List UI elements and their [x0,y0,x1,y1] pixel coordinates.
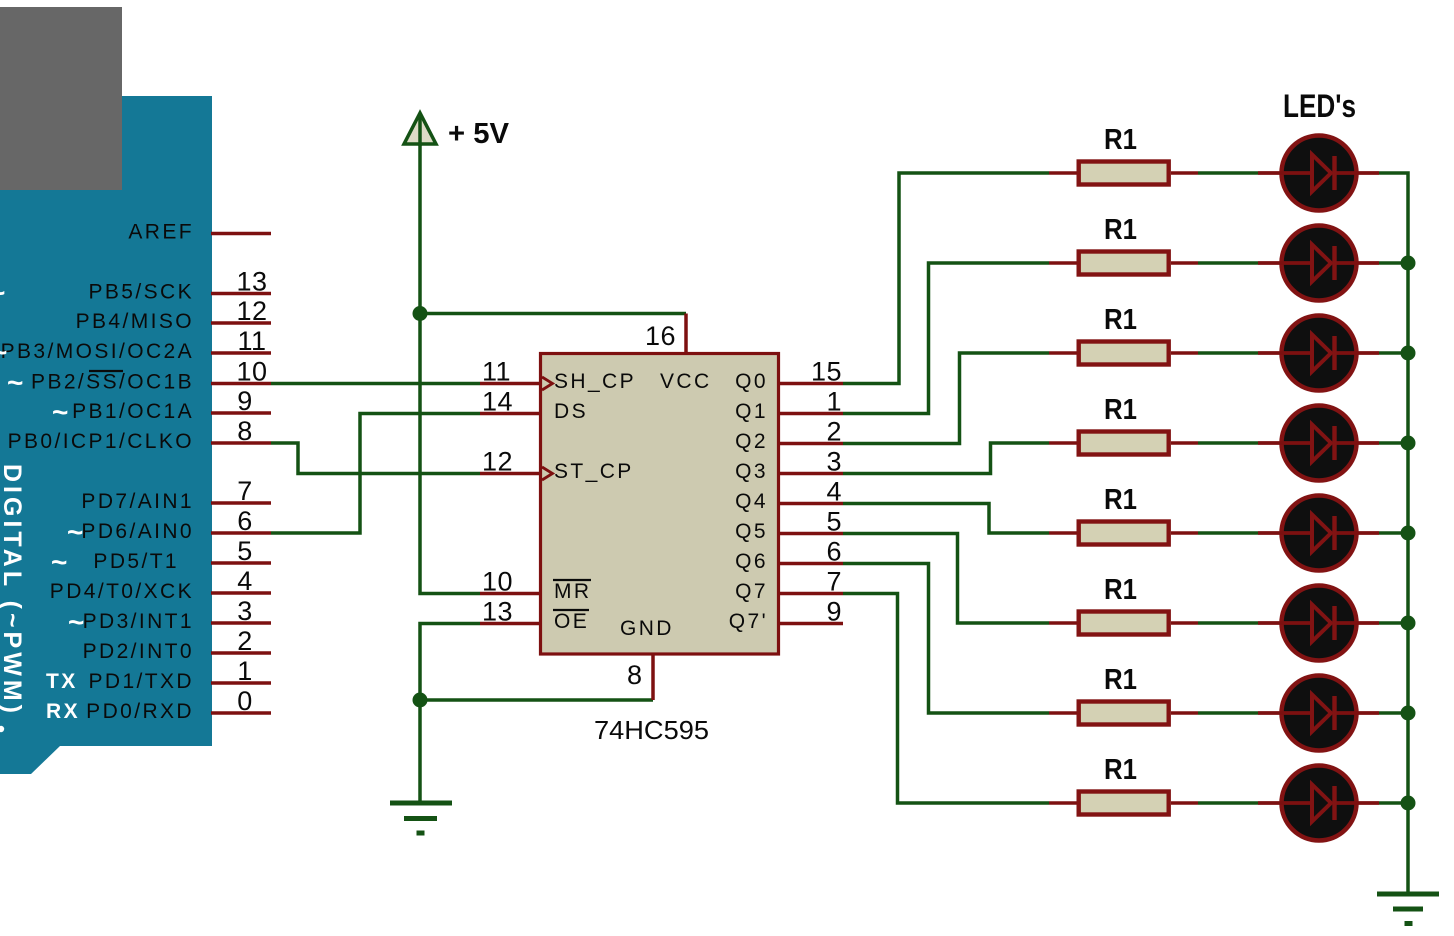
svg-text:PB3/MOSI/OC2A: PB3/MOSI/OC2A [1,340,194,363]
wire Q1 to resistor row 2 [843,263,1049,414]
wire Q4 to resistor row 5 [843,504,1049,534]
wire LED4 to bus [1379,441,1408,445]
Arduino pin 0 PD0/RXD [46,686,271,723]
svg-text:Q5: Q5 [735,520,768,543]
wire LED2 to bus [1379,261,1408,265]
resistor R1 row 7 [1049,664,1198,725]
junction bus row 3 [1401,346,1416,361]
svg-text:3: 3 [826,447,842,477]
svg-text:4: 4 [237,566,253,596]
svg-text:9: 9 [826,597,842,627]
svg-text:15: 15 [811,357,842,387]
svg-text:7: 7 [826,567,842,597]
resistor R1 row 4 [1049,394,1198,455]
svg-text:ST_CP: ST_CP [554,460,634,483]
svg-text:6: 6 [237,506,253,536]
chip pin 6 Q6 [735,537,843,574]
svg-text:7: 7 [237,476,253,506]
svg-text:~: ~ [51,547,67,578]
Arduino pin 4 PD4/T0/XCK [50,566,271,603]
svg-text:2: 2 [237,626,253,656]
junction GND [413,693,428,708]
LED D6 [1258,586,1379,661]
svg-text:74HC595: 74HC595 [594,715,709,745]
svg-text:GND: GND [620,617,674,640]
LED D8 [1258,766,1379,841]
wire Q7 to resistor row 8 [843,594,1049,804]
chip pin 2 Q2 [735,417,843,454]
svg-text:8: 8 [237,416,253,446]
Arduino gray module block [0,7,122,190]
wire Q6 to resistor row 7 [843,564,1049,714]
junction bus row 7 [1401,706,1416,721]
svg-text:VCC: VCC [660,370,712,393]
svg-text:1: 1 [237,656,253,686]
+5V power symbol [404,113,510,150]
Arduino pin 12 PB4/MISO [76,296,271,333]
svg-text:11: 11 [237,326,266,356]
svg-text:AREF: AREF [128,221,194,244]
svg-text:12: 12 [482,447,513,477]
junction +5V/VCC [413,306,428,321]
svg-text:10: 10 [236,357,267,387]
LED D5 [1258,496,1379,571]
svg-text:Q7': Q7' [729,610,768,633]
resistor R1 row 1 [1049,124,1198,185]
chip pin 9 Q7' [729,597,843,634]
Arduino digital connector body [0,96,212,774]
svg-text:~: ~ [0,337,7,368]
Arduino pin 10 PB2/SS/OC1B [7,357,271,399]
chip pin 14 DS [480,387,588,424]
svg-text:Q7: Q7 [735,580,768,603]
junction bus row 5 [1401,526,1416,541]
svg-text:9: 9 [237,386,253,416]
wire OE to ground [420,624,480,804]
LED D1 [1258,136,1379,211]
wire Q5 to resistor row 6 [843,534,1049,624]
svg-text:TX: TX [46,670,78,693]
svg-text:8: 8 [627,660,643,690]
wire PB0 to ST_CP [271,443,480,474]
svg-text:13: 13 [236,267,267,297]
svg-text:PD2/INT0: PD2/INT0 [83,640,194,663]
svg-text:13: 13 [482,597,513,627]
svg-text:0: 0 [237,686,253,716]
svg-text:Q0: Q0 [735,370,768,393]
chip pin 10 MR [480,567,591,604]
svg-text:3: 3 [237,596,253,626]
svg-text:~: ~ [0,277,5,308]
junction bus row 2 [1401,256,1416,271]
svg-text:PD3/INT1: PD3/INT1 [83,610,194,633]
wire PD6 to DS [271,414,480,534]
chip pin 5 Q5 [735,507,843,544]
svg-text:PD1/TXD: PD1/TXD [89,670,195,693]
resistor R1 row 3 [1049,304,1198,365]
svg-text:4: 4 [826,477,842,507]
LED D4 [1258,406,1379,481]
wire LED3 to bus [1379,351,1408,355]
svg-text:~: ~ [7,367,23,398]
svg-text:DIGITAL (~PWM): DIGITAL (~PWM) [0,464,26,717]
Arduino pin AREF [128,221,271,244]
Arduino pin 6 PD6/AIN0 [67,506,271,548]
Arduino pin 3 PD3/INT1 [68,596,271,638]
svg-text:OE: OE [554,610,589,633]
LED D3 [1258,316,1379,391]
svg-text:R1: R1 [1104,574,1137,606]
svg-text:~: ~ [67,517,83,548]
wire resistor to LED row 6 [1198,621,1258,625]
svg-text:R1: R1 [1104,484,1137,516]
wire LED5 to bus [1379,531,1408,535]
wire +5V rail to MR [420,144,480,594]
wire LED6 to bus [1379,621,1408,625]
Arduino pin 9 PB1/OC1A [52,386,271,428]
chip pin 12 ST_CP [480,447,634,484]
svg-text:PB5/SCK: PB5/SCK [88,281,194,304]
svg-text:R1: R1 [1104,664,1137,696]
wire LED8 to bus [1379,801,1408,805]
svg-text:PB4/MISO: PB4/MISO [76,310,194,333]
chip pin 15 Q0 [735,357,843,394]
svg-text:PD5/T1: PD5/T1 [93,550,179,573]
wire resistor to LED row 3 [1198,351,1258,355]
wire resistor to LED row 7 [1198,711,1258,715]
svg-text:SH_CP: SH_CP [554,370,636,393]
svg-text:1: 1 [826,387,842,417]
svg-text:PB0/ICP1/CLKO: PB0/ICP1/CLKO [8,430,194,453]
svg-text:16: 16 [645,321,676,351]
wire LED cathode bus [1379,173,1408,894]
resistor R1 row 5 [1049,484,1198,545]
wire LED7 to bus [1379,711,1408,715]
chip pin 8 GND [620,617,674,700]
chip pin 13 OE [480,597,589,634]
wire resistor to LED row 1 [1198,171,1258,175]
LED D7 [1258,676,1379,751]
svg-text:R1: R1 [1104,394,1137,426]
wire +5V to VCC [420,312,686,316]
svg-text:14: 14 [482,387,513,417]
wire Q2 to resistor row 3 [843,353,1049,444]
svg-text:5: 5 [237,536,253,566]
svg-text:12: 12 [236,296,267,326]
wire resistor to LED row 4 [1198,441,1258,445]
svg-text:Q1: Q1 [735,400,768,423]
chip pin 1 Q1 [735,387,843,424]
svg-text:Q2: Q2 [735,430,768,453]
Arduino pin 2 PD2/INT0 [83,626,271,663]
74HC595 chip U1 body [541,354,779,655]
svg-text:2: 2 [826,417,842,447]
svg-text:6: 6 [826,537,842,567]
resistor R1 row 6 [1049,574,1198,635]
svg-text:5: 5 [826,507,842,537]
svg-text:RX: RX [46,700,80,723]
svg-text:PD6/AIN0: PD6/AIN0 [81,520,194,543]
resistor R1 row 8 [1049,754,1198,815]
svg-text:~: ~ [52,397,68,428]
junction bus row 8 [1401,796,1416,811]
chip pin 3 Q3 [735,447,843,484]
chip pin 7 Q7 [735,567,843,604]
Arduino pin 1 PD1/TXD [46,656,271,693]
wire resistor to LED row 2 [1198,261,1258,265]
chip pin 4 Q4 [735,477,843,514]
wire resistor to LED row 5 [1198,531,1258,535]
junction bus row 4 [1401,436,1416,451]
svg-text:R1: R1 [1104,214,1137,246]
resistor R1 row 2 [1049,214,1198,275]
Arduino pin 7 PD7/AIN1 [81,476,271,513]
svg-text:+ 5V: + 5V [448,118,510,150]
wire GND pin branch [420,698,653,702]
svg-text:Q4: Q4 [735,490,768,513]
svg-text:~: ~ [68,607,84,638]
svg-text:PD7/AIN1: PD7/AIN1 [81,490,194,513]
ground symbol left [390,803,452,833]
svg-text:11: 11 [482,357,511,387]
svg-text:LED's: LED's [1283,88,1356,124]
chip pin 16 VCC [645,314,712,394]
wire PB2 to SH_CP [271,382,480,386]
chip pin 11 SH_CP [480,357,636,394]
Arduino pin 11 PB3/MOSI/OC2A [0,326,271,368]
ground symbol right [1377,894,1439,924]
wire resistor to LED row 8 [1198,801,1258,805]
svg-text:MR: MR [554,580,591,603]
junction bus row 6 [1401,616,1416,631]
wire Q3 to resistor row 4 [843,443,1049,474]
svg-text:Q6: Q6 [735,550,768,573]
Arduino pin 13 PB5/SCK [88,267,271,304]
Arduino pin 8 PB0/ICP1/CLKO [8,416,271,453]
LED D2 [1258,226,1379,301]
Arduino pin 5 PD5/T1 [51,536,271,578]
svg-text:PB1/OC1A: PB1/OC1A [72,400,194,423]
svg-text:R1: R1 [1104,124,1137,156]
svg-text:R1: R1 [1104,304,1137,336]
wire Q0 to resistor row 1 [843,173,1049,384]
svg-text:PD0/RXD: PD0/RXD [86,700,194,723]
svg-text:Q3: Q3 [735,460,768,483]
svg-text:10: 10 [482,567,513,597]
svg-text:DS: DS [554,400,588,423]
svg-text:R1: R1 [1104,754,1137,786]
svg-text:PB2/SS/OC1B: PB2/SS/OC1B [31,371,194,394]
svg-text:PD4/T0/XCK: PD4/T0/XCK [50,580,194,603]
